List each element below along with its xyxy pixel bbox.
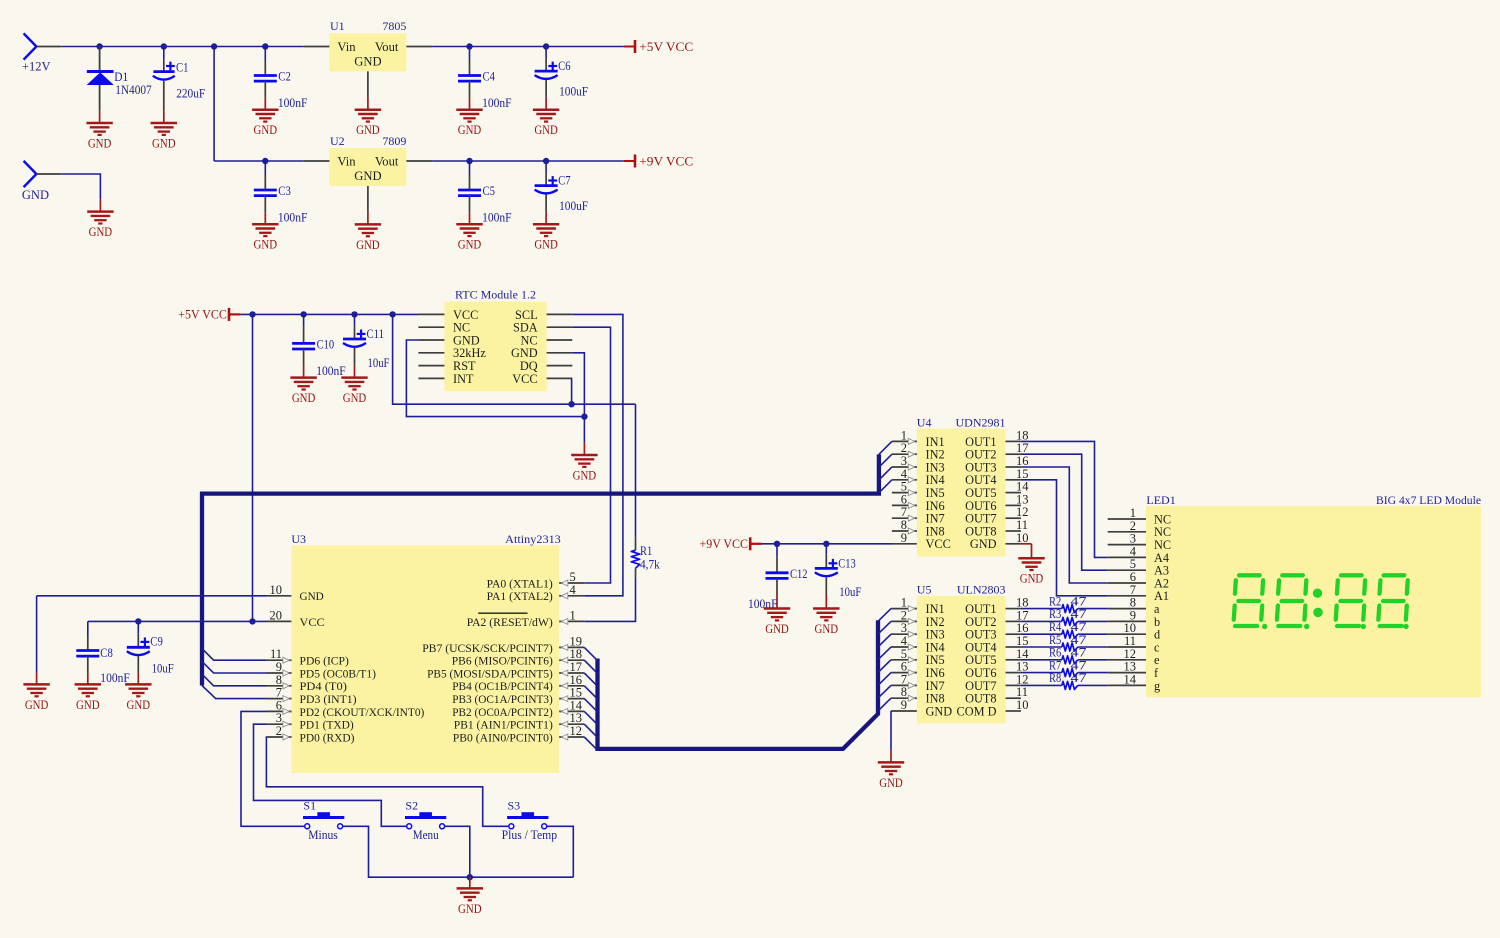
ground under U2 (355, 224, 381, 252)
U5 pin 7 IN7 (891, 672, 945, 692)
junction at C13 (823, 541, 829, 547)
U3 pin 14 PB2 (OC0A/PCINT2) (452, 698, 584, 718)
svg-text:4: 4 (570, 583, 577, 597)
U4 pin 8 IN8 (892, 518, 945, 538)
U5 pin 11 OUT8 (965, 685, 1028, 705)
svg-text:GND: GND (22, 188, 49, 202)
U5 pin 17 OUT2 (965, 608, 1028, 628)
svg-text:GND: GND (127, 698, 151, 712)
svg-text:+9V VCC: +9V VCC (639, 154, 693, 168)
svg-text:VCC: VCC (926, 537, 951, 551)
U4 pin 18 OUT1 (965, 428, 1028, 448)
ground under U1 (355, 110, 381, 138)
svg-text:GND: GND (1020, 572, 1044, 586)
svg-text:UDN2981: UDN2981 (956, 416, 1006, 430)
svg-text:PB0 (AIN0/PCINT0): PB0 (AIN0/PCINT0) (453, 730, 553, 744)
wire S1 to ground rail (343, 826, 574, 877)
capacitor C9 10uF (polarized) (127, 621, 174, 684)
wire bus ripper to U4 IN3 (879, 467, 892, 480)
wire bus ripper to U5 IN1 (878, 609, 891, 622)
U4 pin 7 IN7 (892, 505, 945, 525)
LED1 pin 8 a (1108, 596, 1160, 616)
svg-text:C2: C2 (278, 70, 291, 84)
U4 pin 15 OUT4 (965, 467, 1028, 487)
svg-text:Menu: Menu (413, 828, 440, 842)
svg-text:C13: C13 (838, 557, 856, 571)
ground for RTC (571, 455, 597, 483)
U3 pin 17 PB5 (MOSI/SDA/PCINT5) (427, 660, 584, 680)
svg-text:Attiny2313: Attiny2313 (505, 532, 561, 546)
U4 pin 11 OUT8 (965, 518, 1028, 538)
wire RTC SDA to U3 PA0 (572, 327, 610, 583)
diode D1 1N4007 (87, 47, 152, 124)
svg-text:C5: C5 (483, 184, 496, 198)
svg-text:GND: GND (458, 902, 482, 916)
U4 pin 5 IN5 (892, 480, 945, 500)
IC U5 ULN2803 sink driver (917, 583, 1006, 724)
ground under C7 (533, 224, 559, 252)
svg-text:U5: U5 (917, 583, 932, 597)
wire 7809 input rail (214, 160, 304, 162)
U5 pin 13 OUT6 (965, 660, 1028, 680)
capacitor C8 100nF (76, 636, 130, 684)
wire bus ripper from PB3 (584, 699, 597, 712)
ground under C5 (456, 224, 482, 252)
U5 pin 16 OUT3 (965, 621, 1028, 641)
wire bus ripper to U4 IN4 (879, 480, 892, 493)
wire bus ripper from PB0 (584, 737, 597, 750)
svg-text:10: 10 (1016, 698, 1029, 712)
svg-text:U1: U1 (330, 19, 345, 33)
svg-text:Minus: Minus (308, 828, 338, 842)
junction RTC ground net (581, 413, 587, 419)
supply +5V VCC flag (RTC) (178, 308, 240, 322)
resistor R4 47 (1021, 620, 1108, 638)
LED display colon lower dot (1313, 608, 1323, 618)
svg-text:S2: S2 (405, 799, 418, 813)
wire +12V to regulators rail (36, 46, 61, 48)
svg-text:10: 10 (270, 583, 283, 597)
svg-text:+9V VCC: +9V VCC (700, 537, 749, 551)
U5 pin 6 IN6 (891, 660, 945, 680)
LED display digit 1 (1233, 575, 1264, 626)
resistor R6 47 (1021, 646, 1108, 664)
wire RTC SCL to U3 PA1 (572, 314, 623, 595)
svg-text:BIG 4x7 LED Module: BIG 4x7 LED Module (1376, 493, 1481, 507)
wire bus ripper to PD5 (202, 661, 267, 673)
svg-text:C7: C7 (558, 174, 571, 188)
IC U3 Attiny2313 microcontroller (291, 532, 560, 773)
ground for buttons (457, 888, 483, 916)
LED display digit 2 (1276, 575, 1307, 626)
capacitor C6 100uF (polarized) (535, 47, 589, 110)
wire bus ripper to U4 IN1 (879, 441, 892, 454)
svg-text:VCC: VCC (512, 372, 537, 386)
svg-text:COM D: COM D (957, 704, 997, 718)
U5 GND pin to ground (890, 711, 892, 751)
U4 pin 14 OUT5 (965, 480, 1029, 500)
svg-text:PA1 (XTAL2): PA1 (XTAL2) (487, 589, 553, 603)
U3 pin 19 PB7 (UCSK/SCK/PCINT7) (422, 634, 584, 654)
svg-text:20: 20 (270, 608, 283, 622)
svg-text:GND: GND (534, 238, 558, 252)
svg-text:C8: C8 (100, 646, 113, 660)
junction buttons ground (467, 874, 473, 880)
svg-text:10uF: 10uF (839, 585, 861, 599)
U4 pin 9 VCC (892, 531, 951, 551)
capacitor C7 100uF (polarized) (535, 161, 589, 224)
svg-text:VCC: VCC (300, 615, 325, 629)
ground under C1 (151, 123, 177, 151)
wire U3 PD1 to switch S2 (254, 724, 407, 826)
U3 pin 4 PA1 (XTAL2) (487, 583, 585, 603)
svg-text:7805: 7805 (382, 19, 406, 33)
wire bus ripper to PD3 (202, 686, 267, 699)
junction +5V branch to RTC right VCC (389, 311, 395, 317)
wire bus ripper from PB4 (584, 686, 597, 699)
switch S3 Plus / Temp (502, 799, 557, 843)
supply +9V VCC flag (top) (624, 154, 694, 168)
wire bus ripper to U5 IN6 (878, 673, 891, 686)
U3 pin 18 PB6 (MISO/PCINT6) (452, 647, 585, 667)
svg-text:D1: D1 (114, 70, 128, 84)
svg-text:S3: S3 (508, 799, 521, 813)
wire S3 to ground rail (547, 826, 574, 877)
RTC left pin stubs (418, 314, 444, 378)
capacitor C12 (766, 544, 808, 609)
svg-text:12: 12 (570, 724, 583, 738)
U5 pin 9 GND (891, 698, 952, 718)
svg-text:GND: GND (356, 238, 380, 252)
svg-text:Plus / Temp: Plus / Temp (502, 828, 557, 842)
capacitor C13 10uF (polarized) (815, 544, 862, 609)
svg-text:R1: R1 (640, 544, 652, 558)
svg-text:10: 10 (1016, 531, 1029, 545)
wire +5V vertical to U3 VCC (252, 314, 254, 621)
wire U4 OUT4 to LED A1 (1021, 480, 1108, 596)
ground for U4 (1018, 558, 1044, 586)
U3 pin 10 GND (267, 583, 325, 603)
ground under C12 (764, 609, 790, 637)
svg-text:4,7k: 4,7k (640, 558, 660, 572)
svg-text:PA2 (RESET/dW): PA2 (RESET/dW) (467, 615, 553, 629)
svg-text:C6: C6 (558, 59, 571, 73)
svg-text:LED1: LED1 (1146, 493, 1175, 507)
LED display digit 4 (1377, 575, 1408, 626)
svg-text:GND: GND (458, 123, 482, 137)
svg-text:+5V VCC: +5V VCC (178, 308, 227, 322)
svg-text:GND: GND (354, 169, 381, 183)
LED display digit 3 (1335, 575, 1366, 626)
U4 pin 2 IN2 (892, 441, 945, 461)
ground under C11 (341, 378, 367, 406)
U5 pin 8 IN8 (891, 685, 945, 705)
resistor R1 4,7k (RESET pullup) (631, 404, 660, 578)
U3 pin 15 PB3 (OC1A/PCINT3) (452, 686, 584, 706)
wire RTC GND left to ground net (406, 340, 584, 417)
svg-text:+5V VCC: +5V VCC (639, 40, 693, 54)
capacitor C3 100nF (254, 161, 308, 225)
svg-text:Vin: Vin (337, 154, 356, 168)
wire U3 PD0 to switch S3 (266, 737, 508, 826)
U5 pin 4 IN4 (891, 634, 945, 654)
U1 GND pin (367, 71, 369, 97)
LED display decimal point 1 (1262, 624, 1267, 629)
resistor R5 47 (1021, 633, 1108, 651)
LED display decimal point 4 (1403, 624, 1408, 629)
U4 GND pin to ground (1021, 544, 1032, 558)
capacitor C1 220uF (polarized) (153, 47, 205, 124)
junction +5V to U3 VCC (249, 311, 255, 317)
wire U4 OUT3 to LED A2 (1021, 467, 1108, 583)
LED1 pin 3 NC (1108, 532, 1171, 552)
svg-text:Vout: Vout (375, 40, 399, 54)
U3 pin 6 PD2 (CKOUT/XCK/INT0) (267, 698, 425, 718)
wire bus ripper to PD6 (202, 649, 267, 661)
svg-text:Vout: Vout (375, 154, 399, 168)
svg-text:GND: GND (343, 391, 367, 405)
RTC right pin stubs (547, 314, 573, 378)
IC U4 UDN2981 source driver (917, 416, 1006, 557)
wire S2 to ground rail (445, 826, 470, 877)
switch S2 Menu (405, 799, 446, 843)
svg-text:GND: GND (765, 622, 789, 636)
svg-text:GND: GND (926, 704, 953, 718)
wire R1 to U3 PA2 RESET (584, 578, 635, 622)
wire bus ripper to U5 IN5 (878, 660, 891, 673)
svg-text:GND: GND (815, 622, 839, 636)
svg-text:100nF: 100nF (316, 364, 346, 378)
svg-text:100nF: 100nF (482, 96, 512, 110)
LED1 pin 1 NC (1108, 506, 1171, 526)
LED display decimal point 2 (1304, 624, 1309, 629)
wire into U2 Vin (304, 160, 330, 162)
svg-text:GND: GND (458, 238, 482, 252)
wire bus ripper from PB5 (584, 673, 597, 686)
wire U3 GND pin to ground (37, 595, 267, 597)
junction U3 VCC from +5V (249, 618, 255, 624)
U3 pin 12 PB0 (AIN0/PCINT0) (453, 724, 585, 744)
U3 pin 9 PD5 (OC0B/T1) (267, 660, 376, 680)
svg-text:100uF: 100uF (559, 84, 588, 98)
U5 pin 3 IN3 (891, 621, 945, 641)
U5 pin 5 IN5 (891, 647, 945, 667)
svg-text:100uF: 100uF (559, 199, 588, 213)
U5 pin 14 OUT5 (965, 647, 1029, 667)
wire +5V rail to RTC VCC (229, 313, 241, 315)
junction at C4 (466, 43, 472, 49)
ground under C6 (533, 110, 559, 138)
svg-text:U2: U2 (330, 134, 345, 148)
svg-text:100nF: 100nF (482, 211, 512, 225)
IC RTC Module 1.2 (444, 287, 546, 391)
connector +12V input (22, 33, 51, 73)
U3 pin 5 PA0 (XTAL1) (487, 570, 585, 590)
svg-text:100nF: 100nF (278, 96, 308, 110)
U4 pin 16 OUT3 (965, 454, 1028, 474)
svg-text:U3: U3 (291, 532, 306, 546)
wire down to RTC ground symbol (583, 417, 585, 443)
svg-text:C4: C4 (483, 70, 496, 84)
U3 pin 13 PB1 (AIN1/PCINT1) (454, 711, 585, 731)
ground for GND input (87, 212, 113, 240)
svg-text:GND: GND (356, 123, 380, 137)
wire RTC GND right down (572, 353, 584, 417)
svg-text:GND: GND (25, 698, 49, 712)
svg-text:PD0 (RXD): PD0 (RXD) (300, 730, 355, 744)
svg-text:INT: INT (453, 372, 474, 386)
svg-text:100nF: 100nF (748, 597, 778, 611)
wire +9V to U4 VCC (750, 543, 762, 545)
module LED1 BIG 4x7 LED Module (1146, 493, 1481, 697)
svg-text:GND: GND (254, 123, 278, 137)
wire bus ripper to U5 IN4 (878, 647, 891, 660)
svg-text:GND: GND (534, 123, 558, 137)
wire +5V branch to RTC right VCC pin (393, 314, 636, 404)
U5 pin 18 OUT1 (965, 596, 1028, 616)
U4 pin 17 OUT2 (965, 441, 1028, 461)
resistor R8 47 (1021, 671, 1108, 689)
connector GND input (22, 161, 49, 202)
U3 pin 7 PD3 (INT1) (267, 686, 357, 706)
U4 pin 12 OUT7 (965, 505, 1028, 525)
U3 pin 20 VCC (267, 608, 325, 628)
IC U1 7805 voltage regulator (329, 19, 406, 71)
wire bus ripper to U5 IN2 (878, 621, 891, 634)
svg-text:ULN2803: ULN2803 (957, 583, 1006, 597)
U4 pin 13 OUT6 (965, 492, 1028, 512)
LED1 pin 5 A3 (1108, 557, 1169, 577)
LED display decimal point 3 (1361, 624, 1366, 629)
LED1 pin 13 f (1108, 660, 1159, 680)
wire bus ripper to U5 IN8 (878, 698, 891, 711)
svg-text:GND: GND (88, 137, 112, 151)
capacitor C5 100nF (458, 161, 512, 225)
svg-text:S1: S1 (303, 799, 316, 813)
junction at C3 (262, 158, 268, 164)
bus U3 port B to U5 (thick) (598, 620, 879, 749)
supply +5V VCC flag (top) (624, 40, 694, 54)
U4 pin 1 IN1 (892, 428, 945, 448)
junction at C2 (262, 43, 268, 49)
svg-text:C3: C3 (278, 184, 291, 198)
ground under C9 (125, 684, 151, 712)
wire bus ripper from PB2 (584, 711, 597, 724)
junction at C9 (135, 618, 141, 624)
U2 GND pin (367, 186, 369, 212)
svg-text:7809: 7809 (382, 134, 406, 148)
svg-text:GND: GND (354, 55, 381, 69)
svg-text:C1: C1 (176, 60, 189, 74)
wire U4 OUT2 to LED A3 (1021, 454, 1108, 570)
resistor R2 47 (1021, 594, 1108, 612)
svg-text:GND: GND (970, 537, 997, 551)
svg-text:Vin: Vin (337, 40, 356, 54)
svg-text:9: 9 (901, 531, 907, 545)
svg-text:GND: GND (879, 776, 903, 790)
wire U4 OUT1 to LED A4 (1021, 441, 1108, 557)
svg-text:GND: GND (152, 137, 176, 151)
svg-text:14: 14 (1124, 672, 1137, 686)
U5 pin 15 OUT4 (965, 634, 1028, 654)
wire U2 Vout to +9V flag (432, 160, 624, 162)
junction at D1 (96, 43, 102, 49)
wire to buttons ground symbol (469, 877, 471, 888)
wire bus ripper to U5 IN3 (878, 634, 891, 647)
svg-text:1: 1 (570, 608, 576, 622)
svg-text:RTC Module 1.2: RTC Module 1.2 (455, 287, 536, 301)
wire U1 Vout to +5V flag (432, 46, 624, 48)
svg-text:R8: R8 (1049, 671, 1061, 685)
LED1 pin 12 e (1108, 647, 1160, 667)
wire U1 Vout pin (406, 46, 432, 48)
LED1 pin 10 d (1108, 621, 1160, 641)
wire bus ripper to U5 IN7 (878, 685, 891, 698)
U3 pin 1 PA2 (RESET/dW) (467, 608, 585, 628)
U3 pin 2 PD0 (RXD) (267, 724, 355, 744)
U3 pin 16 PB4 (OC1B/PCINT4) (452, 673, 584, 693)
svg-text:C12: C12 (790, 567, 808, 581)
svg-text:GND: GND (76, 698, 100, 712)
ground under C2 (252, 110, 278, 138)
ground for U5 (878, 762, 904, 790)
ground under D1 (86, 123, 112, 151)
LED1 pin 6 A2 (1108, 570, 1169, 590)
svg-text:1N4007: 1N4007 (115, 83, 152, 97)
U5 pin 12 OUT7 (965, 672, 1028, 692)
wire bus ripper from PB7 (584, 647, 597, 660)
wire bus ripper to PD4 (202, 674, 267, 686)
svg-text:47: 47 (1071, 671, 1087, 685)
svg-text:GND: GND (254, 238, 278, 252)
U3 pin 8 PD4 (T0) (267, 673, 347, 693)
U3 pin 3 PD1 (TXD) (267, 711, 354, 731)
LED display colon upper dot (1313, 589, 1322, 598)
svg-text:GND: GND (300, 589, 325, 603)
U4 pin 10 GND (970, 531, 1029, 551)
svg-text:C10: C10 (317, 337, 335, 351)
LED1 pin 7 A1 (1108, 583, 1169, 603)
junction at C6 (543, 43, 549, 49)
svg-text:GND: GND (89, 225, 113, 239)
svg-text:C11: C11 (367, 327, 385, 341)
ground under C10 (290, 378, 316, 406)
svg-text:100nF: 100nF (100, 671, 130, 685)
LED1 pin 9 b (1108, 608, 1160, 628)
svg-text:9: 9 (901, 698, 907, 712)
junction 12V branch to 7809 (211, 43, 217, 49)
svg-text:100nF: 100nF (278, 211, 308, 225)
wire U2 Vout pin (406, 160, 432, 162)
svg-text:C9: C9 (150, 634, 163, 648)
wire into U1 Vin (304, 46, 330, 48)
wire bus ripper from PB6 (584, 660, 597, 673)
resistor R3 47 (1021, 607, 1108, 625)
ground under C13 (813, 609, 839, 637)
junction at C12 (774, 541, 780, 547)
LED1 pin 11 c (1108, 634, 1160, 654)
capacitor C2 100nF (254, 47, 308, 111)
ground under C3 (252, 224, 278, 252)
svg-text:g: g (1154, 679, 1160, 693)
junction at C10 (300, 311, 306, 317)
LED1 pin 2 NC (1108, 519, 1171, 539)
wire C8 corner (87, 621, 89, 636)
svg-text:GND: GND (292, 391, 316, 405)
wire GND input to ground (36, 173, 61, 175)
wire U3 VCC rail (88, 620, 267, 622)
svg-text:220uF: 220uF (176, 86, 205, 100)
